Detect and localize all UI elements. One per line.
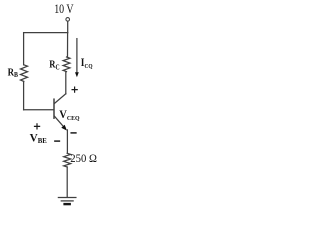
plus sign of VCEQ bbox=[72, 87, 77, 92]
wire left rail upper bbox=[23, 33, 25, 65]
wire right rail upper bbox=[67, 33, 69, 57]
wire RC to collector bbox=[65, 72, 67, 94]
resistor RC bbox=[63, 57, 70, 72]
wire emitter to RE bbox=[66, 130, 68, 153]
transistor Q1 emitter lead bbox=[54, 116, 65, 128]
svg-text:10 V: 10 V bbox=[54, 2, 74, 16]
transistor Q1 base bar bbox=[53, 99, 55, 118]
ground symbol bbox=[58, 197, 76, 199]
wire terminal to top rail bbox=[67, 21, 69, 32]
minus sign of VCEQ bbox=[71, 132, 76, 134]
plus sign of VBE bbox=[35, 124, 40, 129]
minus sign of VBE bbox=[55, 140, 60, 142]
wire left rail lower bbox=[23, 81, 25, 109]
resistor RE 250 ohm bbox=[64, 153, 71, 167]
resistor RB bbox=[21, 65, 28, 82]
transistor Q1 collector lead bbox=[54, 94, 65, 104]
wire RE to ground bbox=[66, 167, 68, 197]
wire base lead bbox=[24, 109, 54, 111]
wire top horizontal bbox=[24, 32, 68, 34]
node VCC terminal circle bbox=[66, 18, 70, 22]
current arrow ICQ bbox=[76, 39, 78, 73]
transistor Q1 emitter arrowhead bbox=[61, 125, 67, 131]
svg-text:250 Ω: 250 Ω bbox=[70, 151, 97, 165]
